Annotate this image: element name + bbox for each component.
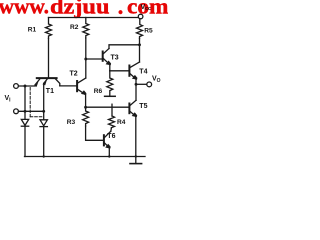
resistor R4 top lead: [111, 104, 113, 116]
T2 collector diagonal: [78, 78, 86, 83]
T5 emitter diagonal w/ arrow: [130, 112, 136, 117]
T5 collector diagonal: [130, 100, 136, 105]
node dot 136,84.3: [135, 83, 138, 86]
wire node to T4 base: [110, 70, 129, 72]
resistor R5: [137, 19, 143, 39]
top rail Vcc: [49, 17, 139, 19]
svg-text:.: .: [118, 0, 124, 19]
T5 base rail from R3 node: [86, 106, 129, 108]
transistor T5: [128, 104, 130, 114]
wire T4 emitter down: [135, 79, 137, 84]
T1 mid emitter diagonal w/ arrow: [44, 79, 48, 83]
svg-text:T5: T5: [139, 103, 147, 110]
svg-text:T6: T6: [107, 133, 115, 140]
T3 emitter diagonal w/ arrow: [104, 59, 110, 65]
diode D2: [40, 120, 47, 126]
svg-text:T1: T1: [46, 88, 54, 95]
diode D1: [24, 111, 26, 119]
node dot 85.8,59: [84, 58, 87, 61]
wire R3 to T6 base: [86, 126, 103, 140]
node dot 135.8,156.5: [135, 155, 137, 157]
resistor R4: [109, 116, 115, 128]
resistor R1: [46, 18, 52, 39]
wire R2 down to T2 collector: [85, 38, 87, 78]
transistor T6: [103, 135, 105, 145]
T1 collector diagonal to T2: [56, 79, 60, 86]
wire T5 collector up to node: [135, 84, 137, 100]
input terminal V1 bottom circle: [14, 109, 19, 114]
svg-text:T2: T2: [70, 71, 78, 78]
wire T3 collector to R5 node: [109, 45, 140, 49]
T6 emitter diagonal w/ arrow: [105, 143, 110, 148]
svg-text:VI: VI: [5, 95, 12, 104]
svg-text:VO: VO: [152, 76, 161, 85]
node dot 44,111: [42, 110, 45, 113]
T6 collector diagonal: [105, 131, 111, 137]
ground: [135, 157, 137, 164]
wire R1 to T1: [48, 39, 50, 78]
node R5/T3 junction: [138, 43, 141, 46]
transistor T1 (bar horizontal): [37, 77, 57, 79]
wire T1 mid emitter down: [43, 83, 45, 119]
resistor R3: [83, 107, 89, 126]
svg-text:R6: R6: [94, 88, 103, 95]
transistor T3: [102, 52, 104, 61]
input terminal V1 top circle: [14, 84, 19, 89]
T2 emitter diagonal w/ arrow: [78, 90, 85, 95]
svg-text:R2: R2: [70, 24, 79, 31]
node dot 109.3,156.5: [108, 155, 110, 157]
svg-text:R4: R4: [117, 119, 126, 126]
wire T2 emitter down: [85, 95, 87, 108]
T1 left emitter diagonal w/ arrow: [35, 79, 40, 85]
node dot 85.6,107.2: [84, 106, 87, 109]
T3 base wire: [86, 58, 102, 60]
wire T6 emitter to rail: [108, 148, 110, 157]
wire T3 emitter down to node: [109, 65, 111, 71]
svg-text:Vcc: Vcc: [141, 4, 151, 12]
wire 25 vertical: [24, 86, 26, 111]
svg-text:T3: T3: [111, 55, 119, 62]
svg-text:R3: R3: [67, 119, 76, 126]
bottom rail: [25, 156, 146, 158]
output terminal V0 circle: [147, 82, 152, 87]
T4 emitter diagonal w/ arrow: [130, 74, 136, 79]
wire to output: [136, 83, 147, 85]
resistor R2: [83, 18, 89, 39]
wire R5 down to junction: [139, 39, 141, 63]
Vcc terminal circle: [138, 14, 143, 19]
T2 base wire: [60, 85, 76, 87]
dashed horizontal: [30, 116, 42, 118]
T3 collector diagonal: [104, 49, 109, 54]
svg-text:dzjuu: dzjuu: [50, 0, 110, 19]
R4 bottom lead: [110, 128, 113, 131]
node dot 25,111: [24, 110, 27, 113]
transistor T4: [128, 66, 130, 76]
dashed vertical: [29, 88, 31, 117]
wire input to T1: [18, 85, 35, 87]
node dot 43.7,156.5: [43, 155, 45, 157]
resistor R6: [107, 71, 113, 96]
wire input2: [18, 110, 43, 112]
svg-text:R5: R5: [144, 28, 153, 35]
R6 bottom bar termination: [105, 95, 116, 97]
node dot 25,86: [24, 85, 27, 88]
wire T5 emitter down to rail: [135, 116, 137, 156]
T4 collector diagonal: [130, 62, 139, 67]
svg-text:R1: R1: [28, 27, 37, 34]
transistor T2: [76, 81, 78, 91]
svg-text:www.: www.: [0, 0, 49, 19]
svg-text:T4: T4: [139, 69, 147, 76]
